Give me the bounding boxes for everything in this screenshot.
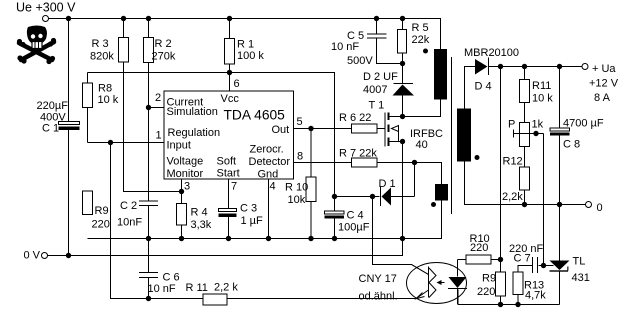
svg-text:D 4: D 4 — [475, 81, 492, 93]
svg-text:10k: 10k — [288, 194, 306, 206]
svg-text:R9: R9 — [482, 273, 496, 285]
svg-text:MBR20100: MBR20100 — [464, 47, 519, 59]
svg-text:1k: 1k — [532, 119, 544, 131]
svg-text:Start: Start — [217, 168, 240, 180]
svg-text:4,7k: 4,7k — [525, 290, 546, 302]
svg-text:R 2: R 2 — [155, 38, 172, 50]
svg-text:C 7: C 7 — [514, 253, 531, 265]
svg-text:Soft: Soft — [217, 156, 237, 168]
svg-text:Detector: Detector — [249, 156, 291, 168]
svg-text:R 10: R 10 — [285, 182, 308, 194]
svg-text:TDA 4605: TDA 4605 — [224, 108, 286, 123]
svg-text:Regulation: Regulation — [168, 127, 221, 139]
svg-text:Gnd: Gnd — [258, 169, 279, 181]
svg-text:100 k: 100 k — [237, 50, 264, 62]
svg-text:8: 8 — [297, 151, 303, 163]
svg-text:10 k: 10 k — [532, 93, 553, 105]
svg-text:431: 431 — [572, 272, 590, 284]
svg-text:C 3: C 3 — [240, 203, 257, 215]
svg-text:500V: 500V — [347, 55, 373, 67]
svg-text:P: P — [508, 119, 515, 131]
svg-text:+ Ua: + Ua — [592, 63, 616, 75]
svg-text:Input: Input — [167, 140, 191, 152]
svg-text:5: 5 — [297, 116, 303, 128]
svg-text:4007: 4007 — [363, 84, 387, 96]
svg-text:100µF: 100µF — [338, 222, 370, 234]
svg-text:10nF: 10nF — [117, 217, 142, 229]
svg-text:2,2k: 2,2k — [502, 191, 523, 203]
svg-text:4700 µF: 4700 µF — [563, 118, 604, 130]
svg-text:3,3k: 3,3k — [191, 219, 212, 231]
svg-text:D 1: D 1 — [379, 178, 396, 190]
svg-text:Out: Out — [272, 124, 290, 136]
svg-text:220: 220 — [470, 242, 488, 254]
svg-text:220: 220 — [92, 219, 110, 231]
svg-text:Ue +300 V: Ue +300 V — [16, 1, 76, 15]
svg-text:C 4: C 4 — [347, 210, 364, 222]
svg-text:8 A: 8 A — [594, 92, 611, 104]
svg-text:R 11: R 11 — [186, 282, 208, 294]
svg-text:C 8: C 8 — [563, 139, 580, 151]
svg-text:220: 220 — [477, 286, 495, 298]
svg-text:0: 0 — [597, 202, 603, 214]
svg-text:0 V: 0 V — [24, 250, 41, 262]
svg-text:C 1: C 1 — [42, 123, 59, 135]
svg-text:R 6 22: R 6 22 — [339, 112, 371, 124]
svg-text:R 7 22k: R 7 22k — [339, 148, 377, 160]
svg-text:820k: 820k — [90, 51, 114, 63]
svg-text:2,2 k: 2,2 k — [214, 282, 238, 294]
svg-text:TL: TL — [573, 256, 586, 268]
svg-text:R9: R9 — [95, 205, 109, 217]
svg-text:R12: R12 — [503, 156, 523, 168]
svg-text:40: 40 — [416, 139, 428, 151]
svg-text:6: 6 — [234, 78, 240, 90]
svg-text:R 3: R 3 — [92, 38, 109, 50]
svg-text:1: 1 — [156, 130, 162, 142]
svg-text:2: 2 — [155, 92, 161, 104]
svg-text:T 1: T 1 — [369, 100, 385, 112]
svg-text:CNY 17: CNY 17 — [359, 273, 397, 285]
svg-text:270k: 270k — [152, 51, 176, 63]
svg-text:1 µF: 1 µF — [241, 215, 264, 227]
svg-text:3: 3 — [184, 181, 190, 193]
svg-text:+12 V: +12 V — [589, 78, 619, 90]
svg-text:Zerocr.: Zerocr. — [250, 144, 284, 156]
svg-text:R 5: R 5 — [412, 22, 429, 34]
svg-text:R11: R11 — [532, 80, 551, 92]
svg-text:Simulation: Simulation — [167, 106, 218, 118]
svg-text:C 6: C 6 — [163, 272, 180, 284]
svg-text:Voltage: Voltage — [167, 156, 204, 168]
svg-text:10 nF: 10 nF — [148, 283, 176, 295]
svg-text:D 2 UF: D 2 UF — [363, 71, 398, 83]
svg-text:220µF: 220µF — [37, 100, 69, 112]
svg-text:22k: 22k — [412, 34, 430, 46]
svg-text:4: 4 — [270, 181, 276, 193]
svg-text:R 4: R 4 — [191, 207, 208, 219]
svg-text:7: 7 — [231, 181, 237, 193]
svg-text:R8: R8 — [98, 83, 112, 95]
svg-text:10 nF: 10 nF — [331, 41, 359, 53]
svg-text:od.ähnl.: od.ähnl. — [359, 291, 398, 303]
svg-text:C 2: C 2 — [120, 200, 137, 212]
svg-text:Vcc: Vcc — [221, 93, 240, 105]
svg-text:Monitor: Monitor — [167, 168, 204, 180]
svg-text:R 1: R 1 — [237, 39, 254, 51]
svg-text:10 k: 10 k — [98, 94, 119, 106]
